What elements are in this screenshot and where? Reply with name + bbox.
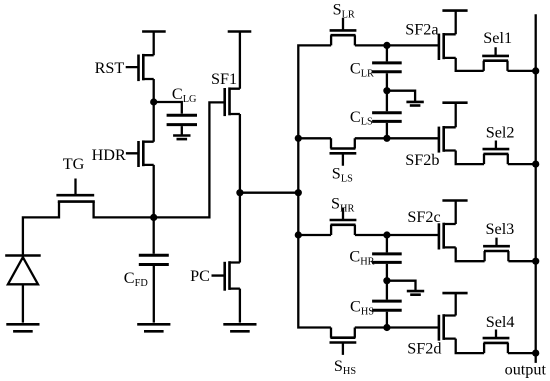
svg-text:Sel4: Sel4 <box>486 313 515 331</box>
svg-text:Sel1: Sel1 <box>483 29 512 47</box>
svg-text:SF2d: SF2d <box>407 340 441 358</box>
svg-text:SF2a: SF2a <box>405 21 438 39</box>
svg-text:HDR: HDR <box>92 146 126 164</box>
svg-text:PC: PC <box>190 267 210 285</box>
svg-text:RST: RST <box>95 59 125 77</box>
svg-text:Sel2: Sel2 <box>486 124 515 142</box>
svg-text:SF2c: SF2c <box>407 208 440 226</box>
svg-text:SF1: SF1 <box>211 70 237 88</box>
svg-text:Sel3: Sel3 <box>486 220 515 238</box>
svg-text:SF2b: SF2b <box>405 151 439 169</box>
svg-text:TG: TG <box>63 155 85 173</box>
svg-text:output: output <box>505 361 547 379</box>
